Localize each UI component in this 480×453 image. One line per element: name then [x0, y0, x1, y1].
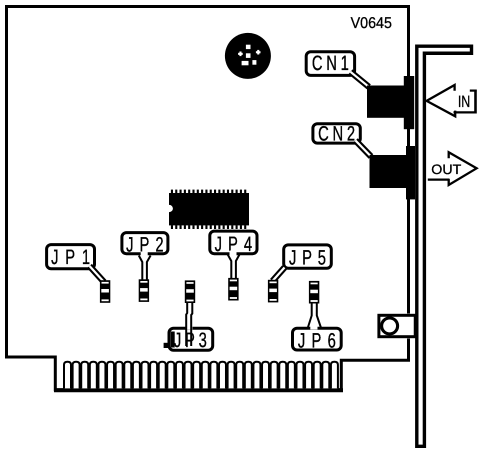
svg-text:OUT: OUT	[431, 162, 462, 177]
svg-text:JP1: JP1	[51, 245, 90, 268]
svg-text:CN1: CN1	[312, 52, 349, 75]
svg-text:V0645: V0645	[351, 15, 392, 32]
svg-text:JP6: JP6	[298, 329, 336, 352]
svg-text:IN: IN	[458, 93, 470, 111]
svg-text:JP5: JP5	[289, 246, 326, 269]
svg-text:CN2: CN2	[318, 122, 355, 145]
